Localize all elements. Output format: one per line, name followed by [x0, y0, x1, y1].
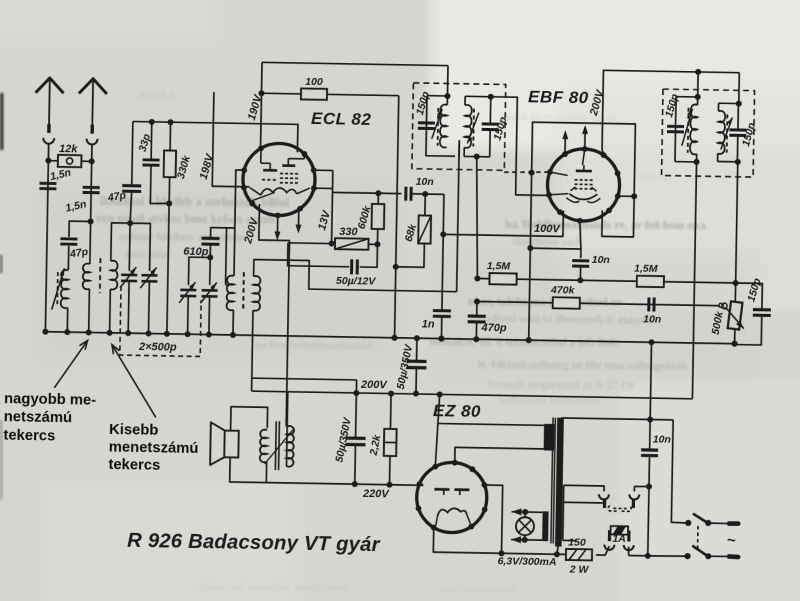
resistor 600k	[372, 204, 385, 229]
wire 1.5M row	[477, 278, 735, 283]
inductor RF transformer secondary	[110, 261, 117, 290]
resistor 470k	[553, 297, 580, 308]
wire grid top rail	[132, 122, 298, 153]
capacitor 1,5n (left)	[39, 182, 56, 185]
wire top rail	[262, 62, 448, 65]
capacitor 150p T2 primary	[667, 125, 684, 128]
antenna A2	[79, 78, 107, 93]
wire plug2 to chassis line	[634, 486, 649, 492]
svg-text:470p: 470p	[480, 322, 507, 334]
wire IF2 primary bottom to B+	[692, 162, 696, 399]
node T2 secondary bottom	[735, 159, 741, 165]
wire 198V node	[212, 92, 251, 186]
node 190V/100ohm	[258, 90, 264, 96]
annotation arrow 1	[54, 340, 87, 388]
wire T1 coil exit down	[458, 140, 460, 156]
wire osc plate winding top jog	[253, 260, 457, 292]
node detector out	[733, 280, 739, 286]
capacitor 47p (grid)	[122, 184, 141, 187]
tube ECL82 pins	[258, 145, 264, 151]
wire 13V vertical	[332, 171, 333, 244]
transformer HV winding bar	[544, 424, 555, 451]
svg-text:sahtne bkelmv ats ulmbe: sahtne bkelmv ats ulmbe	[120, 229, 248, 244]
capacitor 10n (coupling)	[404, 187, 407, 201]
transformer 6.3V winding bar	[542, 511, 549, 541]
switch link dashed	[697, 526, 699, 551]
wire B+ upper stub Y383	[252, 378, 357, 380]
potentiometer wiper circle	[722, 303, 727, 308]
wire 330k top	[169, 122, 171, 150]
tuning gang dashed box 2x500p	[120, 286, 202, 357]
wire fuse right to row	[628, 547, 630, 556]
output transformer diagonal	[265, 428, 295, 464]
wire T1 primary bottom exit	[446, 155, 455, 157]
wire bottom psu row	[501, 553, 565, 554]
capacitor 33p	[143, 158, 160, 161]
inductor antenna coil (adjustable)	[61, 270, 69, 308]
fuse holder cups	[604, 545, 614, 550]
capacitor 610p	[202, 237, 220, 240]
resistor 12k (antenna series)	[58, 155, 82, 167]
T2 secondary loop	[719, 102, 739, 104]
svg-text:2 W: 2 W	[569, 563, 590, 575]
wire T1 secondary top to EBF80 grid	[489, 97, 517, 195]
wire osc coil entry lead	[226, 228, 231, 286]
svg-text:tnldsk a: tnldsk a	[140, 89, 175, 101]
wire 10n row from ECL82	[332, 192, 401, 193]
capacitor 50u/350V (second filter)	[413, 391, 419, 397]
wire ECL82 grid-pin left-upper to 610p	[235, 170, 244, 228]
wire 68k bottom to HT line	[396, 243, 425, 267]
svg-text:2×500p: 2×500p	[138, 341, 177, 354]
svg-text:10n: 10n	[653, 433, 671, 445]
wire T1 secondary bottom down (AGC)	[475, 157, 480, 279]
wire riser to switch top	[671, 420, 689, 523]
wire 6.3V leads with arrows	[512, 511, 543, 514]
wire AGC down	[530, 173, 531, 248]
T2 primary loop	[697, 72, 699, 97]
svg-text:nktsalctt, tlE b telamtczsbal: nktsalctt, tlE b telamtczsbal a lsG ltnl…	[430, 336, 619, 349]
antenna A1	[36, 78, 64, 93]
T1 primary adjust dashed+arrow	[437, 108, 440, 146]
svg-text:12k: 12k	[59, 143, 78, 155]
wire EBF80 heater arrows (up)	[564, 138, 566, 154]
mains switch upper pole	[685, 520, 691, 526]
tube EZ80 envelope	[416, 462, 487, 533]
variable capacitor trimmer 2	[141, 274, 157, 277]
wire fuse left to row	[596, 546, 609, 555]
wire T2 sec top feed	[738, 73, 741, 104]
wire HV tap upper to selector	[564, 485, 604, 491]
wire 190V vertical	[260, 62, 262, 150]
wire chassis bus	[45, 332, 734, 344]
wire pentode plate	[259, 204, 290, 250]
pilot lamp	[522, 509, 528, 515]
potentiometer 500k	[734, 283, 736, 302]
capacitor 10n (AF coupling)	[647, 297, 650, 311]
voltage selector plug 2	[629, 494, 639, 499]
wire 470k row	[477, 301, 720, 305]
wire EZ80 right pin to bottom row	[483, 485, 502, 553]
svg-text:EBF 80: EBF 80	[528, 87, 589, 107]
wire 33p bottom jog	[150, 166, 169, 204]
svg-text:R 926 Badacsony VT gyár: R 926 Badacsony VT gyár	[127, 530, 381, 556]
wire diode pin stub	[618, 195, 634, 197]
svg-text:100: 100	[305, 76, 323, 88]
tube ECL82 internals	[260, 148, 262, 163]
wire to 47p(2)	[69, 221, 91, 237]
capacitor 10n screen	[572, 259, 589, 262]
wire EZ80 filament to 220V rail	[419, 484, 423, 485]
core osc transformer dashed	[242, 272, 245, 312]
node 610p	[209, 244, 211, 257]
wire junction down to varcap1	[128, 223, 131, 271]
variable capacitor tuning gang section 1	[121, 273, 137, 276]
T2 secondary adjust	[726, 114, 729, 152]
resistor 2.2k	[388, 391, 394, 397]
wire EZ80 cathode riser to B+	[437, 391, 443, 397]
transformer core lines	[551, 418, 553, 544]
wire 396 vertical (HT)	[395, 96, 399, 338]
capacitor 10n line noise	[649, 419, 652, 448]
wire HV winding bottom lead	[455, 447, 544, 464]
T2 primary adjust	[687, 108, 690, 153]
resistor 1.5M (first)	[489, 273, 516, 284]
svg-text:10n: 10n	[643, 313, 661, 325]
variable capacitor osc trimmer	[202, 289, 218, 292]
wire osc feedback riser to IF1	[457, 142, 460, 292]
wire EBF80 plate to top rail	[602, 70, 739, 157]
capacitor 470p	[476, 301, 478, 316]
node T1 secondary top	[488, 94, 494, 100]
svg-text:ltesnak stegleteasl at lt 57 t: ltesnak stegleteasl at lt 57 tW	[488, 377, 637, 392]
tube EZ80 internals	[434, 488, 449, 491]
capacitor 1n	[442, 234, 443, 310]
capacitor 50u/350V (B+ filter)	[353, 390, 359, 396]
wire antenna right down	[91, 161, 92, 221]
selector link dashed	[608, 505, 631, 511]
wire B+ rail right end riser	[691, 398, 693, 400]
wire ECL82 pin right-lower jog	[314, 187, 333, 189]
svg-text:10n: 10n	[592, 254, 610, 266]
svg-text:tbalse sml nmsetlteb anbsdl tm: tbalse sml nmsetlteb anbsdl tmesl	[200, 581, 348, 594]
transformer core bar	[555, 418, 564, 547]
svg-text:1,5M: 1,5M	[634, 263, 658, 275]
wire HV tap lower	[563, 501, 604, 504]
tube EBF80 internals	[576, 170, 592, 173]
svg-text:1,5M: 1,5M	[487, 260, 511, 272]
wire ECL82 cathode arrows	[276, 215, 278, 232]
resistor 68k	[424, 194, 426, 215]
mains switch lower pole	[684, 553, 690, 559]
svg-text:ECL 82: ECL 82	[311, 109, 372, 129]
wire drop to detector node	[442, 194, 445, 234]
capacitor 150p T2 secondary	[729, 128, 746, 131]
capacitor 47p (antenna coil)	[60, 237, 77, 240]
node T2 secondary top	[736, 101, 742, 107]
wire 610p to varcap4	[209, 257, 211, 284]
T1 primary loop	[426, 96, 448, 156]
core output transformer	[274, 421, 277, 470]
fuse holder pins	[608, 530, 611, 541]
resistor 150 2W	[566, 549, 592, 560]
wire top rail into T1	[446, 66, 449, 96]
svg-text:470k: 470k	[550, 284, 576, 296]
tube EBF80 envelope	[547, 148, 620, 221]
svg-text:ntealb alsnemlteb: ntealb alsnemlteb	[440, 583, 518, 596]
wire IF2 secondary down to detector	[736, 162, 738, 283]
svg-text:220V: 220V	[362, 488, 391, 500]
wire EBF80 grid stub	[516, 194, 551, 197]
wire osc winding bottom to B+ rail	[252, 310, 253, 391]
svg-text:100V: 100V	[534, 223, 562, 235]
wire 33p top	[150, 122, 153, 160]
wire ECL82 pin right-upper jog	[314, 169, 333, 171]
capacitor 150p detector	[735, 283, 762, 310]
T1 secondary adjust dashed+arrow	[472, 108, 475, 146]
inductor osc coil plate winding	[253, 276, 261, 311]
wire EBF80 cathode riser	[562, 211, 564, 237]
svg-text:~: ~	[727, 532, 736, 549]
svg-text:50µ/12V: 50µ/12V	[336, 275, 377, 288]
wire core stub to row	[557, 547, 558, 555]
voltage selector plug 1	[599, 494, 609, 499]
svg-text:EZ 80: EZ 80	[433, 401, 481, 421]
wire AGC riser and loop around tube	[531, 122, 636, 237]
inductor T1 primary coil	[440, 104, 448, 147]
svg-text:1A: 1A	[612, 533, 626, 545]
capacitor 150p T1 primary	[418, 121, 435, 124]
svg-text:200V: 200V	[360, 379, 389, 391]
wire AGC dashed to grid pin	[504, 171, 550, 173]
wire bus down to psu	[650, 342, 651, 419]
wire antenna line right to coil pair	[89, 221, 92, 260]
variable capacitor osc gang section	[180, 289, 196, 292]
capacitor 50u/12V electrolytic	[288, 243, 350, 267]
wire ECL82 osc coil left vertical	[233, 228, 236, 276]
wire osc grid jog to 610p	[211, 228, 235, 239]
wire junction to trimmer	[129, 223, 150, 271]
inductor T2 secondary coil	[718, 111, 726, 154]
wire EZ80 bottom-left pin to heater row	[433, 528, 502, 554]
wire speaker loop	[233, 407, 235, 431]
wire 47p to antenna coil	[67, 246, 69, 270]
T1 secondary loop	[465, 95, 491, 97]
node: antenna coupling junction	[88, 218, 94, 224]
wire 47p grid top	[132, 122, 133, 186]
svg-text:tedlsnmlt bzneatllse: tedlsnmlt bzneatllse	[498, 392, 600, 407]
svg-text:na bvstlkemsebsaeistddtl: na bvstlkemsebsaeistddtl	[255, 339, 372, 352]
wire HV winding top lead	[438, 423, 544, 425]
wire 47p to junction	[130, 191, 132, 223]
wire B+ 200V rail	[252, 391, 693, 399]
node 47p junction	[127, 220, 133, 226]
inductor output transformer secondary	[260, 430, 267, 463]
wire detector row to EBF80 cathode	[443, 209, 563, 237]
speaker	[224, 431, 239, 458]
wire antenna left down	[45, 161, 48, 332]
wire antenna coil to bus	[66, 308, 68, 332]
tube EBF80 pins	[582, 146, 588, 152]
svg-text:llatklnai s hkrlbb a ntehmzdk: llatklnai s hkrlbb a ntehmzdk blliul	[100, 194, 290, 210]
svg-text:lt. bRtndeasllnteg ze tlle tma: lt. bRtndeasllnteg ze tlle tma salbngete…	[478, 357, 688, 373]
wire 10n to 68k node	[411, 193, 444, 196]
capacitor 150p T1 secondary	[482, 122, 499, 125]
svg-text:1n: 1n	[422, 318, 435, 330]
svg-text:6,3V/300mA: 6,3V/300mA	[497, 555, 556, 568]
tube ECL82 envelope	[242, 143, 315, 216]
resistor 100	[301, 88, 327, 99]
wire switch bottom row	[648, 555, 688, 556]
capacitor 1,5n (right)	[83, 186, 100, 189]
wire EBF80 bottom pin to 10n node	[579, 221, 581, 249]
wire 610p to varcap3	[188, 257, 210, 285]
node 330k/33p	[166, 200, 172, 206]
inductor T2 primary coil	[690, 104, 698, 154]
node top wire 33p	[149, 119, 155, 125]
svg-text:10n: 10n	[416, 176, 434, 188]
core RF transformer (dashed)	[99, 258, 102, 293]
inductor output transformer primary	[286, 242, 289, 427]
node T1 secondary bottom	[474, 154, 480, 160]
wire screen bypass to 10n	[530, 248, 581, 258]
wire RF secondary top	[111, 223, 130, 262]
transformer HV secondary box	[562, 485, 565, 540]
wire 100 rail	[261, 92, 300, 95]
IF transformer T2 dashed box	[662, 89, 755, 177]
bus junction dots	[42, 329, 48, 335]
svg-text:ktes alin: ktes alin	[125, 247, 168, 261]
inductor RF transformer primary	[89, 261, 91, 264]
resistor 330k	[164, 150, 176, 177]
annotation arrow 2	[111, 345, 157, 418]
svg-text:lsnb tae: lsnb tae	[640, 172, 671, 183]
resistor 1.5M (second)	[637, 276, 664, 287]
svg-text:150: 150	[568, 536, 586, 548]
IF transformer T1 dashed box	[412, 83, 506, 170]
wire 330k down to bus	[167, 177, 170, 334]
tube EZ80 pins	[452, 460, 458, 466]
wire 220V rail	[266, 483, 423, 486]
wire RF secondary bottom to bus	[109, 289, 112, 333]
fuse 1A	[611, 526, 629, 535]
inductor osc coil grid winding	[226, 276, 234, 311]
inductor T1 secondary coil	[464, 105, 472, 148]
potentiometer wiper arrow	[726, 308, 745, 329]
wire transformer top row	[561, 418, 673, 420]
resistor 330 (osc cathode)	[288, 242, 335, 245]
